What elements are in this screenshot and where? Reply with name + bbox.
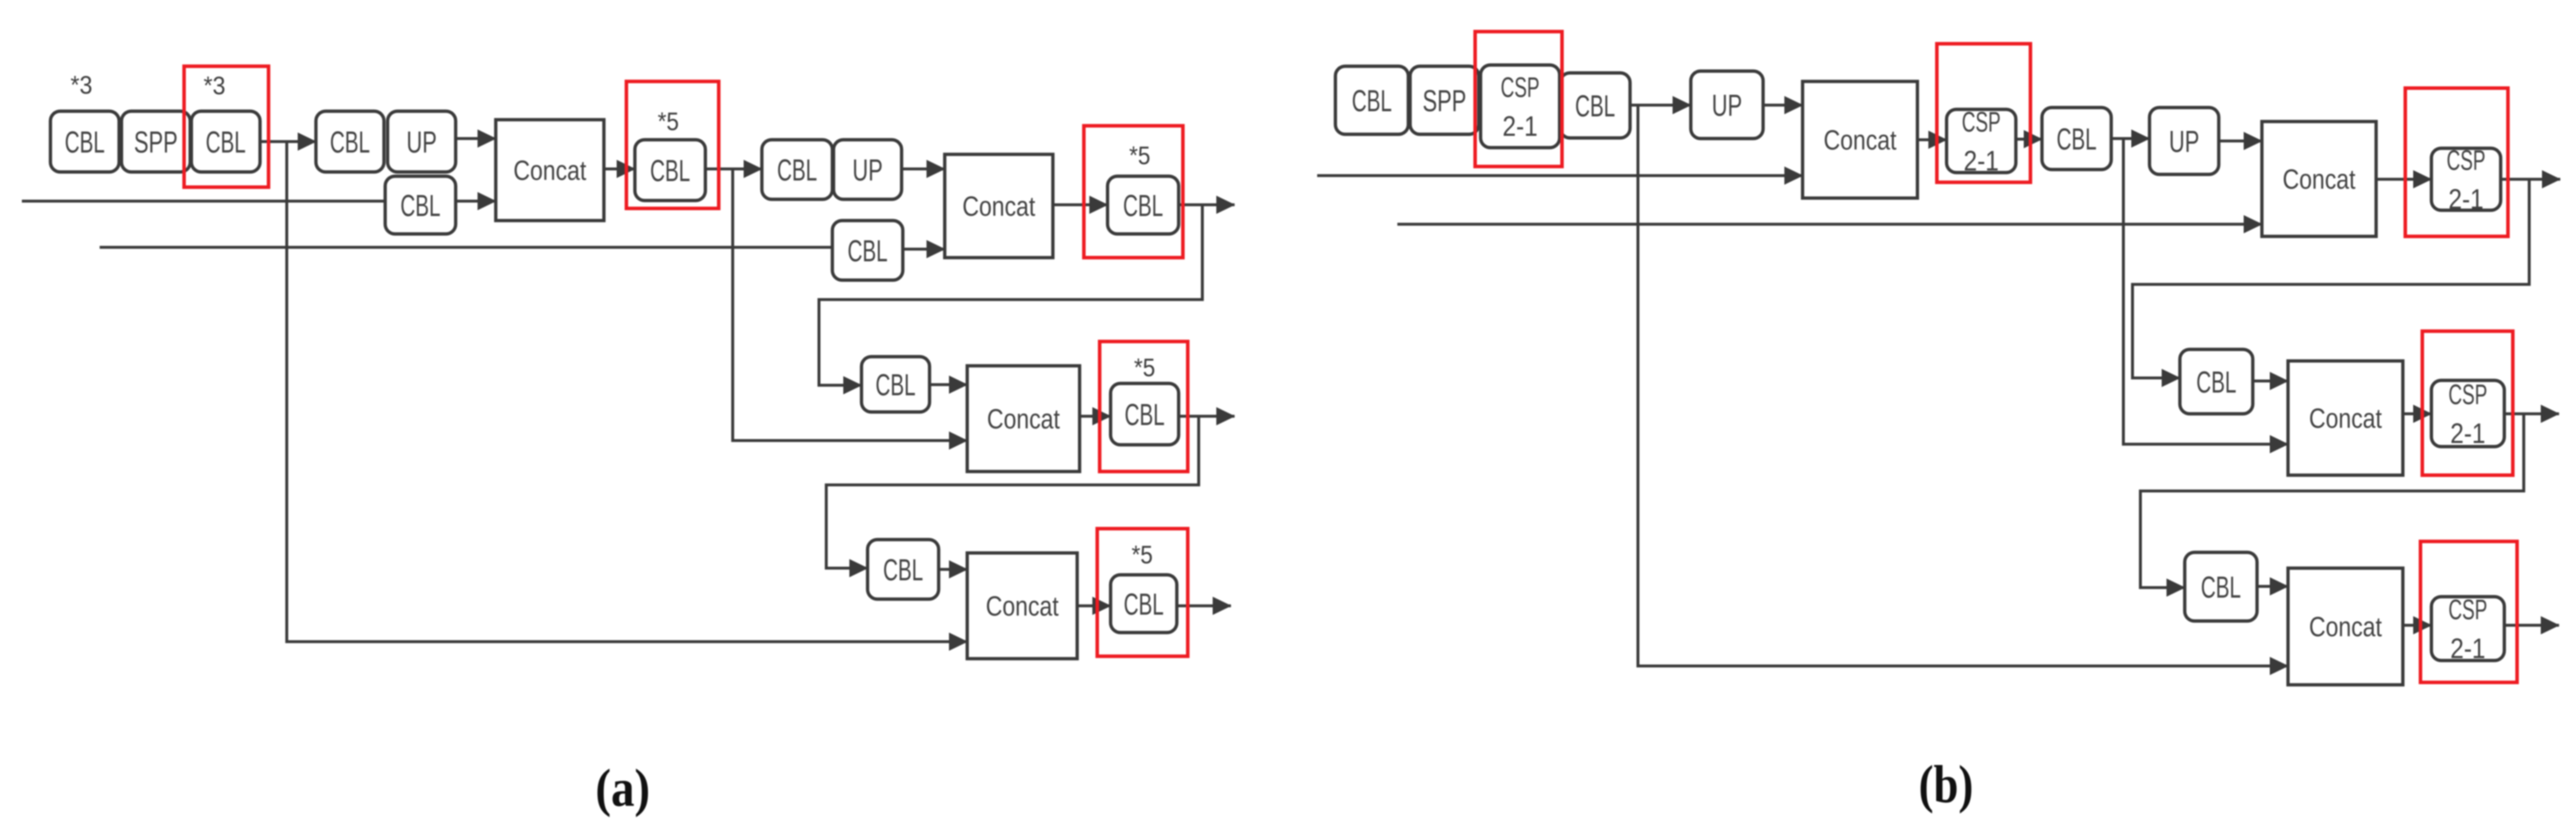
svg-text:CSP: CSP: [2448, 379, 2487, 410]
svg-text:Concat: Concat: [513, 155, 586, 186]
svg-text:2-1: 2-1: [2448, 184, 2484, 215]
svg-text:Concat: Concat: [987, 403, 1060, 434]
svg-text:Concat: Concat: [2309, 403, 2382, 434]
svg-text:CBL: CBL: [206, 125, 246, 159]
svg-text:CBL: CBL: [1124, 588, 1164, 622]
svg-text:CBL: CBL: [2201, 571, 2241, 605]
svg-text:UP: UP: [406, 125, 437, 159]
svg-text:CBL: CBL: [2057, 122, 2097, 156]
svg-text:CBL: CBL: [883, 553, 923, 587]
svg-text:*3: *3: [70, 70, 92, 99]
svg-text:2-1: 2-1: [1502, 111, 1538, 142]
svg-text:UP: UP: [852, 153, 883, 187]
svg-text:Concat: Concat: [1824, 125, 1897, 156]
svg-text:SPP: SPP: [134, 125, 178, 159]
svg-text:CSP: CSP: [2448, 594, 2487, 625]
svg-text:UP: UP: [2169, 125, 2199, 159]
svg-text:CBL: CBL: [1352, 84, 1392, 118]
svg-text:CSP: CSP: [1501, 72, 1540, 103]
svg-text:CBL: CBL: [1575, 89, 1615, 123]
svg-text:CSP: CSP: [1962, 106, 2001, 138]
svg-text:*5: *5: [1129, 141, 1151, 170]
svg-text:CBL: CBL: [400, 189, 440, 223]
svg-text:UP: UP: [1712, 89, 1742, 123]
svg-text:CSP: CSP: [2447, 145, 2485, 176]
svg-text:*5: *5: [658, 107, 679, 136]
svg-text:(a): (a): [595, 759, 650, 818]
svg-text:2-1: 2-1: [2450, 633, 2485, 664]
svg-text:2-1: 2-1: [2450, 417, 2485, 449]
svg-text:Concat: Concat: [2309, 611, 2382, 642]
svg-text:CBL: CBL: [65, 125, 105, 159]
svg-text:Concat: Concat: [2283, 164, 2355, 195]
svg-text:CBL: CBL: [1123, 189, 1163, 223]
svg-text:CBL: CBL: [1125, 398, 1165, 432]
svg-text:*5: *5: [1134, 353, 1156, 382]
svg-text:CBL: CBL: [875, 368, 916, 402]
svg-text:SPP: SPP: [1423, 84, 1467, 118]
svg-text:CBL: CBL: [2196, 365, 2236, 399]
svg-text:CBL: CBL: [777, 153, 817, 187]
svg-text:*5: *5: [1132, 540, 1153, 569]
svg-text:*3: *3: [204, 71, 225, 100]
svg-text:(b): (b): [1919, 755, 1973, 814]
svg-text:Concat: Concat: [962, 191, 1035, 222]
svg-text:CBL: CBL: [650, 154, 690, 188]
svg-text:CBL: CBL: [330, 125, 370, 159]
svg-text:Concat: Concat: [986, 591, 1059, 622]
svg-text:2-1: 2-1: [1964, 145, 1999, 177]
svg-text:CBL: CBL: [848, 234, 888, 268]
